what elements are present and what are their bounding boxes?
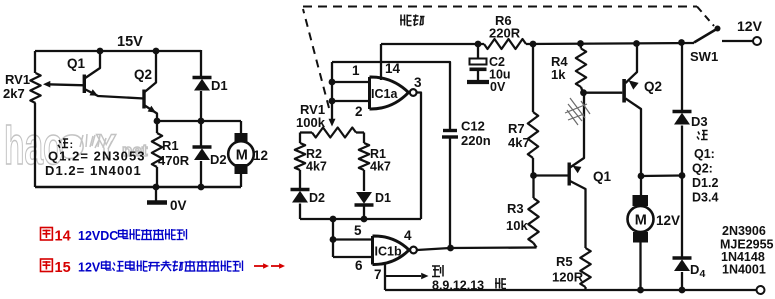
junction C12/output bbox=[447, 245, 454, 252]
wire link to D4 bbox=[681, 176, 683, 259]
annotation to-pins text bbox=[432, 265, 440, 267]
svg-text:4k7: 4k7 bbox=[508, 135, 530, 150]
svg-text:R5: R5 bbox=[556, 254, 573, 269]
wire pin1 bbox=[332, 81, 370, 83]
motor M 12V (right) bbox=[633, 195, 649, 206]
wire feedback line bbox=[300, 218, 421, 220]
svg-text:4k7: 4k7 bbox=[306, 160, 327, 174]
wire left edge lower bbox=[34, 103, 36, 187]
svg-text:2: 2 bbox=[355, 104, 363, 119]
wire pin6 bbox=[333, 256, 373, 258]
RV1 wiper arrow + wire to Q1 base bbox=[47, 84, 85, 85]
wire R7-Q1 base node bbox=[532, 158, 534, 176]
decorative watermark (not labelled further) bbox=[4, 115, 148, 176]
junction pin5 bbox=[330, 236, 337, 243]
junction Q1 base node bbox=[530, 172, 537, 179]
svg-text:4: 4 bbox=[404, 228, 412, 243]
wire RV1 left leg bbox=[299, 133, 301, 144]
svg-text:1k: 1k bbox=[551, 67, 566, 82]
svg-text:D1: D1 bbox=[211, 78, 228, 93]
wire RV1 right leg bbox=[363, 133, 365, 144]
wire top rail 15V bbox=[35, 50, 201, 52]
svg-text:12VDC: 12VDC bbox=[78, 229, 118, 243]
svg-text:12V: 12V bbox=[656, 213, 680, 228]
svg-text:R1: R1 bbox=[162, 138, 179, 153]
svg-text:D3: D3 bbox=[691, 114, 708, 129]
junction R4/top rail bbox=[577, 40, 584, 47]
terminal 12V return bbox=[757, 286, 765, 294]
wire Q2 collector to motor bbox=[640, 133, 642, 196]
wire R3 to output line bbox=[534, 243, 537, 248]
wire D3 top lead bbox=[681, 43, 683, 112]
svg-text:14: 14 bbox=[55, 229, 71, 245]
wire R2-D2 bbox=[299, 170, 301, 190]
wire R5 bottom lead bbox=[584, 287, 586, 290]
resistor R6 220R bbox=[484, 39, 526, 49]
wire IC1b output bbox=[417, 248, 450, 250]
wire node-R3 bbox=[532, 176, 534, 199]
op-gate IC1a (4093 NAND a) bbox=[370, 77, 409, 109]
diode D2 (right) bbox=[291, 188, 310, 192]
junction R4/Q2 base/Q1 emitter bbox=[580, 89, 587, 96]
svg-text:Q2: Q2 bbox=[644, 79, 662, 94]
resistor R7 4k7 bbox=[528, 112, 538, 158]
mechanical link (dashed) switch side bbox=[697, 7, 714, 27]
svg-text:220n: 220n bbox=[461, 133, 491, 148]
wire input node to C12 bbox=[332, 62, 450, 129]
diode D3 bbox=[673, 110, 692, 114]
svg-text:RV1: RV1 bbox=[5, 72, 30, 87]
junction D4/0V rail bbox=[679, 287, 686, 294]
capacitor C2 10u (polarised) bbox=[470, 59, 487, 65]
svg-text:470R: 470R bbox=[158, 153, 190, 168]
junction feedback/D1 bbox=[361, 216, 368, 223]
resistor RV1 100k pot body bbox=[312, 128, 356, 138]
capacitor C12 220n bbox=[443, 129, 457, 132]
junction D2/bottom rail bbox=[198, 184, 205, 191]
svg-text:D2: D2 bbox=[309, 191, 325, 205]
svg-text:Q2:: Q2: bbox=[692, 162, 713, 176]
wire input node vertical bbox=[331, 62, 333, 120]
RV1 wiper arrow (right) bbox=[329, 119, 336, 127]
svg-text:14: 14 bbox=[385, 61, 401, 76]
svg-text:120R: 120R bbox=[552, 270, 584, 285]
resistor R4 1k bbox=[576, 49, 586, 88]
mechanical link (dashed) RV1 side bbox=[303, 9, 329, 108]
wire R7 top lead bbox=[532, 44, 534, 112]
junction R6/R7 bbox=[530, 41, 537, 48]
wire pin14 lead bbox=[380, 44, 382, 80]
svg-text:IC1a: IC1a bbox=[371, 87, 398, 101]
junction motor top / D3-D4 link bbox=[638, 173, 645, 180]
note annotation (right circuit) bbox=[698, 132, 700, 135]
mechanical link (dashed) top run bbox=[303, 6, 697, 8]
svg-text:15V: 15V bbox=[117, 34, 143, 50]
junction pin2 node bbox=[329, 98, 336, 105]
svg-text:C12: C12 bbox=[461, 119, 485, 134]
caption Fig15 bbox=[41, 259, 53, 272]
svg-text:4k7: 4k7 bbox=[370, 160, 391, 174]
diode D1 bbox=[193, 76, 212, 80]
svg-text:12V: 12V bbox=[737, 18, 763, 34]
svg-text:Q1:: Q1: bbox=[694, 147, 715, 161]
ground 0V symbol bbox=[155, 187, 157, 201]
diode D1 (right) bbox=[355, 203, 374, 207]
caption red arrows bbox=[254, 265, 266, 267]
scan scribble noise bbox=[565, 98, 590, 125]
svg-text:12: 12 bbox=[253, 148, 268, 163]
wire pin2 bbox=[332, 100, 370, 102]
switch SW1 bbox=[694, 29, 718, 43]
resistor RV1 (2k7 pot body) bbox=[30, 73, 40, 103]
resistor R5 120R bbox=[580, 248, 590, 287]
junction Q2 collector / top rail bbox=[153, 48, 160, 55]
svg-text:100k: 100k bbox=[296, 115, 326, 130]
svg-text:M: M bbox=[635, 213, 647, 229]
svg-text:D1: D1 bbox=[375, 191, 391, 205]
wire D4 bottom lead bbox=[681, 272, 683, 290]
motor M 12V (left) bbox=[235, 133, 248, 143]
wire Q1 base lead bbox=[534, 174, 568, 176]
wire motor top lead bbox=[240, 121, 242, 136]
svg-text:2k7: 2k7 bbox=[3, 86, 25, 101]
diode D4 bbox=[673, 256, 692, 260]
resistor R3 10k bbox=[528, 198, 538, 243]
wire D1 branch top bbox=[200, 50, 202, 78]
wire link to flyback diodes bbox=[641, 174, 682, 177]
wire D1 to feedback line bbox=[363, 205, 365, 219]
junction D3/top rail bbox=[678, 39, 685, 46]
junction node R1/Q2e bbox=[154, 118, 161, 125]
svg-text:7: 7 bbox=[374, 267, 382, 282]
transistor Q1 (2N3906 PNP) bbox=[568, 163, 571, 186]
wire pin5 bbox=[333, 238, 373, 240]
svg-text:12V: 12V bbox=[78, 261, 101, 275]
junction Q2e/top rail bbox=[633, 40, 640, 47]
svg-text:R3: R3 bbox=[507, 201, 524, 216]
svg-text:0V: 0V bbox=[490, 80, 506, 94]
caption Fig14 bbox=[41, 228, 53, 241]
svg-text:3: 3 bbox=[414, 75, 422, 90]
linkage label bbox=[400, 15, 402, 26]
wire IC1a output down bbox=[417, 93, 421, 220]
junction link/D3-D4 bbox=[679, 172, 686, 179]
svg-text:R7: R7 bbox=[508, 121, 525, 136]
svg-text:D: D bbox=[690, 262, 699, 277]
transistor Q2 bbox=[142, 90, 145, 109]
svg-text:1: 1 bbox=[352, 63, 360, 78]
wire emitter node to motor bbox=[157, 120, 241, 122]
resistor R1 4k7 (right) bbox=[359, 143, 369, 170]
wire bottom 0V rail (right) bbox=[385, 289, 757, 291]
wire D2 top lead bbox=[200, 121, 202, 147]
svg-text:15: 15 bbox=[55, 260, 71, 276]
wire Q2 base lead bbox=[584, 92, 623, 94]
wire R1 bottom lead bbox=[156, 167, 158, 187]
transistor Q1 bbox=[83, 75, 86, 94]
note annotation (left circuit) bbox=[59, 140, 61, 143]
junction pin1 node bbox=[329, 79, 336, 86]
wire bottom rail 0V bbox=[35, 186, 241, 188]
svg-text:0V: 0V bbox=[170, 198, 187, 213]
wire C2 top lead bbox=[477, 44, 479, 58]
resistor R1 470R bbox=[152, 133, 162, 167]
op-gate IC1b (4093 NAND b) bbox=[373, 236, 410, 265]
svg-text:Q1: Q1 bbox=[67, 56, 86, 71]
wire left edge upper bbox=[34, 51, 36, 73]
wire R1 top lead bbox=[156, 121, 158, 133]
wire motor bottom lead bbox=[240, 173, 242, 187]
svg-text:Q1: Q1 bbox=[593, 169, 612, 184]
junction node D1/D2 bbox=[198, 118, 205, 125]
wire R4 to node bbox=[581, 87, 583, 93]
diode D2 bbox=[193, 145, 212, 149]
ground 0V at C2 bbox=[467, 80, 489, 84]
svg-text:IC1b: IC1b bbox=[375, 245, 402, 259]
junction R1/ground bbox=[153, 184, 160, 191]
wire pin7 to 0V rail bbox=[384, 265, 386, 291]
svg-text:D1.2: D1.2 bbox=[692, 176, 718, 190]
wire D1 to node bbox=[200, 91, 202, 121]
svg-text:6: 6 bbox=[355, 258, 363, 273]
wire D3 to link bbox=[681, 126, 683, 176]
svg-text:D1.2= 1N4001: D1.2= 1N4001 bbox=[45, 163, 142, 178]
junction motor/0V rail bbox=[637, 287, 644, 294]
transistor Q2 (MJE2955 PNP) bbox=[622, 79, 626, 103]
resistor R2 4k7 bbox=[295, 143, 305, 170]
svg-text:SW1: SW1 bbox=[690, 49, 718, 64]
svg-text:Q1.2= 2N3053: Q1.2= 2N3053 bbox=[48, 149, 146, 164]
svg-text:2N3906: 2N3906 bbox=[722, 224, 766, 238]
wire D2 bottom lead bbox=[200, 161, 202, 187]
junction Q1 collector / top rail bbox=[97, 48, 104, 55]
wire top rail (right) bbox=[381, 43, 484, 45]
svg-text:D2: D2 bbox=[210, 152, 227, 167]
arrow to pins 8.9.12.13 bbox=[386, 275, 421, 277]
wire R1-D1 bbox=[363, 170, 365, 191]
wire motor bottom lead bbox=[639, 243, 641, 291]
svg-text:5: 5 bbox=[354, 223, 362, 238]
wire D2 to feedback line bbox=[299, 204, 301, 220]
junction C2/top rail bbox=[475, 41, 482, 48]
svg-text:M: M bbox=[236, 148, 248, 164]
wire R4 top lead bbox=[579, 44, 582, 49]
svg-text:10k: 10k bbox=[506, 218, 528, 233]
svg-text:D3.4: D3.4 bbox=[692, 191, 718, 205]
svg-text:1N4001: 1N4001 bbox=[722, 263, 766, 277]
wire IC1b input vertical bbox=[332, 219, 334, 257]
junction feedback/IC1b input bbox=[330, 216, 337, 223]
svg-text:Q2: Q2 bbox=[134, 67, 152, 82]
svg-text:220R: 220R bbox=[489, 26, 521, 41]
svg-text:4: 4 bbox=[700, 268, 706, 280]
